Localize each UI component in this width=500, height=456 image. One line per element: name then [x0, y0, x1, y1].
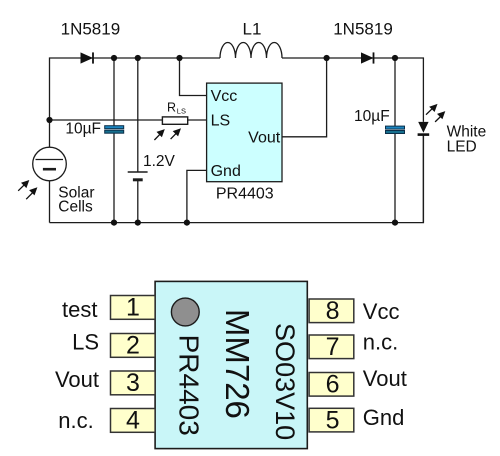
svg-text:LS: LS: [72, 329, 99, 354]
svg-text:Vout: Vout: [248, 129, 281, 146]
pin 5 box: [309, 408, 354, 432]
diode D2: [361, 52, 374, 63]
svg-text:8: 8: [326, 297, 340, 325]
wire LED branch lower: [422, 135, 424, 223]
pin 6 box: [309, 373, 354, 397]
svg-text:1: 1: [126, 293, 140, 321]
wire capacitor C2 branch: [394, 58, 396, 126]
wire left rail solar branch: [49, 120, 51, 147]
svg-text:10µF: 10µF: [65, 121, 101, 138]
svg-text:Cells: Cells: [58, 199, 93, 216]
svg-text:Vout: Vout: [55, 367, 99, 392]
pin 4 box: [111, 409, 156, 433]
svg-text:Gnd: Gnd: [363, 405, 405, 430]
svg-text:1.2V: 1.2V: [143, 153, 176, 170]
wire bottom rail: [50, 135, 424, 223]
wire solar to bottom: [49, 181, 51, 223]
svg-text:Gnd: Gnd: [211, 163, 241, 180]
capacitor C2 10uF: [386, 126, 405, 133]
wire Vout riser: [282, 58, 327, 137]
diode D1: [81, 52, 94, 63]
IC U1 PR4403: [207, 83, 282, 182]
node junction dots: [46, 55, 398, 226]
capacitor C1 10uF: [105, 126, 124, 134]
inductor L1: [220, 42, 282, 58]
svg-text:2: 2: [126, 331, 140, 359]
wire Vcc drop: [180, 58, 207, 96]
svg-text:6: 6: [326, 371, 340, 399]
svg-text:PR4403: PR4403: [173, 335, 204, 436]
svg-text:test: test: [62, 297, 97, 322]
svg-text:Vcc: Vcc: [211, 88, 238, 105]
svg-text:10µF: 10µF: [354, 108, 390, 125]
label White LED: [447, 124, 487, 156]
label Solar Cells: [58, 185, 94, 216]
arrows at RLS: [154, 128, 181, 140]
svg-text:n.c.: n.c.: [363, 330, 398, 355]
svg-text:PR4403: PR4403: [216, 186, 274, 203]
svg-text:LS: LS: [177, 106, 186, 115]
svg-text:7: 7: [326, 333, 340, 361]
svg-text:LED: LED: [447, 139, 477, 156]
pin1 marker dot: [171, 298, 199, 326]
svg-text:Vout: Vout: [363, 366, 407, 391]
svg-text:SO03V10: SO03V10: [270, 323, 300, 440]
label RLS: [167, 101, 186, 116]
svg-text:Vcc: Vcc: [363, 299, 400, 324]
svg-text:R: R: [167, 101, 176, 115]
pin 8 box: [309, 299, 354, 323]
svg-text:LS: LS: [211, 113, 231, 130]
wire LS mid: [50, 119, 163, 121]
pin 7 box: [309, 335, 354, 359]
solar cell source: [33, 147, 67, 181]
LED D3: [418, 122, 430, 135]
resistor RLS: [162, 117, 187, 124]
wire top rail left segment: [50, 58, 221, 120]
wire Gnd drop: [187, 170, 207, 222]
pin 2 box: [111, 334, 156, 358]
battery 1.2V: [128, 172, 148, 180]
pin 3 box: [111, 371, 156, 395]
svg-text:L1: L1: [243, 20, 262, 39]
arrows at LED: [426, 104, 445, 122]
chip body MM726: [155, 281, 307, 448]
svg-text:MM726: MM726: [219, 309, 256, 419]
svg-text:3: 3: [126, 369, 140, 397]
pin 1 box: [111, 296, 156, 320]
svg-text:5: 5: [326, 406, 340, 434]
svg-text:1N5819: 1N5819: [333, 20, 393, 39]
svg-text:n.c.: n.c.: [58, 408, 93, 433]
svg-text:1N5819: 1N5819: [61, 20, 121, 39]
svg-text:4: 4: [126, 406, 140, 434]
arrows at solar cells: [18, 180, 37, 199]
wire top rail right segment: [282, 58, 423, 122]
wire battery branch: [137, 58, 139, 172]
wire capacitor C1 branch: [113, 58, 115, 126]
